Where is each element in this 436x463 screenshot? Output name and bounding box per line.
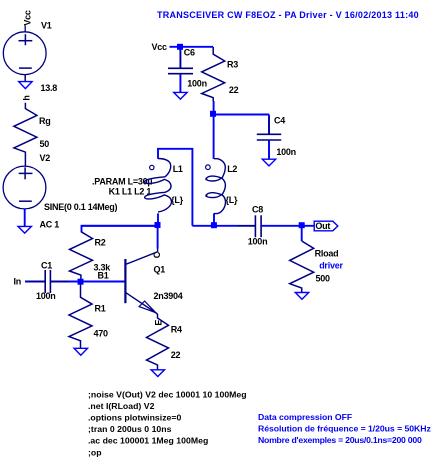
inductor L1 — [145, 159, 172, 212]
ground under R1 — [74, 348, 87, 355]
wire V1 to ground — [24, 75, 26, 82]
svg-text:K1 L1 L2 1: K1 L1 L2 1 — [109, 187, 152, 197]
left rail wire — [82, 225, 159, 227]
svg-text:Rg: Rg — [39, 116, 51, 126]
capacitor C4 — [257, 117, 281, 158]
svg-text:.net I(RLoad) V2: .net I(RLoad) V2 — [88, 401, 155, 411]
svg-text:Out: Out — [315, 221, 330, 231]
svg-text:.ac dec 100001 1Meg 100Meg: .ac dec 100001 1Meg 100Meg — [88, 436, 208, 446]
svg-text:100n: 100n — [276, 147, 296, 157]
svg-text:Résolution de fréquence = 1/20: Résolution de fréquence = 1/20us = 50KHz — [258, 424, 431, 434]
svg-text:Vcc: Vcc — [152, 42, 168, 52]
ground under Rload — [295, 293, 308, 300]
capacitor C8 — [238, 215, 280, 237]
junction node Out/Rload — [299, 222, 305, 228]
svg-text:C4: C4 — [274, 116, 285, 126]
svg-text:V1: V1 — [41, 21, 52, 31]
svg-text:C8: C8 — [252, 205, 263, 215]
svg-text:100n: 100n — [187, 79, 207, 89]
junction node L2 bottom — [211, 222, 217, 228]
wire node to C4 — [213, 114, 269, 116]
svg-text:;noise V(Out) V2 dec 10001 10: ;noise V(Out) V2 dec 10001 10 100Meg — [88, 390, 247, 400]
svg-text:R1: R1 — [95, 304, 106, 314]
capacitor C1 — [27, 270, 69, 293]
svg-text:R4: R4 — [171, 325, 182, 335]
capacitor C6 — [168, 50, 193, 91]
junction node B1 — [78, 279, 84, 285]
transistor Q1 (2n3904 npn) — [125, 248, 157, 314]
svg-text:Q1: Q1 — [154, 265, 166, 275]
svg-text:B1: B1 — [98, 271, 109, 281]
svg-text:100n: 100n — [36, 291, 56, 301]
svg-text:50: 50 — [40, 139, 50, 149]
ground under R4 — [151, 370, 164, 377]
port Out — [314, 221, 338, 231]
svg-text:500: 500 — [316, 274, 331, 284]
wire down to C6 — [179, 47, 181, 68]
svg-text:L2: L2 — [227, 164, 237, 174]
svg-text:R3: R3 — [227, 60, 238, 70]
wire R2 top to left rail — [82, 226, 158, 232]
resistor R1 — [69, 282, 92, 348]
svg-text:Vcc: Vcc — [22, 10, 32, 26]
resistor R2 — [70, 232, 93, 282]
svg-text:;tran 0 200us 0 10ns: ;tran 0 200us 0 10ns — [88, 424, 172, 434]
svg-text:22: 22 — [229, 85, 239, 95]
wire L1 top loop over to right rail — [158, 149, 192, 226]
resistor Rg — [14, 103, 37, 167]
wire C4 top — [268, 115, 270, 135]
resistor R4 — [147, 314, 169, 370]
svg-text:100n: 100n — [248, 237, 268, 247]
ground under V2 — [18, 226, 31, 233]
svg-text:SINE(0 0.1 14Meg): SINE(0 0.1 14Meg) — [44, 202, 118, 212]
svg-text:{L}: {L} — [171, 195, 184, 205]
svg-text:C6: C6 — [184, 48, 195, 58]
svg-text:;op: ;op — [88, 448, 102, 458]
svg-text:.options plotwinsize=0: .options plotwinsize=0 — [88, 413, 182, 423]
svg-text:Data compression OFF: Data compression OFF — [258, 412, 352, 422]
wire base B1 to Q1 — [81, 281, 126, 283]
svg-text:In: In — [14, 277, 22, 287]
svg-text:R2: R2 — [95, 238, 106, 248]
svg-text:.PARAM L=30µ: .PARAM L=30µ — [92, 177, 152, 187]
svg-text:22: 22 — [171, 350, 181, 360]
voltage source V1 — [3, 26, 46, 75]
svg-text:Rload: Rload — [315, 249, 339, 259]
junction node R3/C4/L2 — [210, 111, 216, 117]
wire collector to rail — [157, 226, 159, 249]
inductor L2 — [205, 159, 225, 214]
svg-text:C1: C1 — [41, 261, 52, 271]
svg-text:C: C — [152, 251, 162, 258]
voltage source V2 — [3, 166, 46, 209]
wire C6 to ground — [179, 74, 181, 92]
wire Out node to Rload — [301, 226, 303, 241]
svg-text:L1: L1 — [173, 164, 183, 174]
wire C8 to Out — [261, 225, 314, 227]
wire In to C1 — [25, 281, 45, 283]
wire Vcc to R3 top — [170, 46, 214, 48]
wire L1 bottom lead — [157, 213, 159, 225]
wire C1 to node B1 — [50, 281, 80, 283]
ground under V1 — [19, 82, 32, 89]
wire R3 bottom to L2 top — [213, 101, 215, 159]
svg-text:2n3904: 2n3904 — [154, 291, 183, 301]
wire C4 to ground — [268, 140, 270, 159]
svg-text:470: 470 — [94, 329, 109, 339]
junction node Vcc/C6 — [177, 44, 183, 50]
right rail wire to C8 — [192, 225, 255, 227]
svg-text:driver: driver — [319, 261, 343, 271]
resistor R3 — [202, 47, 225, 101]
ground under C6 — [174, 92, 187, 99]
svg-text:V2: V2 — [40, 153, 51, 163]
svg-text:h: h — [22, 95, 32, 100]
ground under C4 — [262, 159, 275, 166]
junction node collector rail — [155, 222, 161, 228]
svg-text:Nombre d'exemples = 20us/0.1ns: Nombre d'exemples = 20us/0.1ns=200 000 — [258, 435, 422, 445]
svg-text:TRANSCEIVER CW F8EOZ - PA Driv: TRANSCEIVER CW F8EOZ - PA Driver - V 16/… — [157, 10, 419, 20]
svg-text:{L}: {L} — [226, 195, 239, 205]
wire V2 to ground — [24, 209, 26, 227]
wire L2 bottom lead — [213, 213, 215, 225]
svg-text:AC 1: AC 1 — [40, 220, 60, 230]
svg-text:13.8: 13.8 — [41, 83, 58, 93]
resistor Rload — [290, 241, 314, 293]
